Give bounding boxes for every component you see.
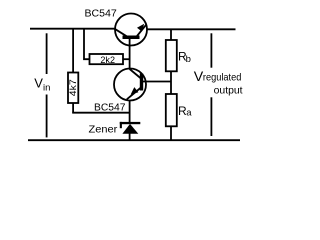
svg-text:4k7: 4k7: [68, 79, 78, 96]
wire 2k2 right lead to Q1 base node: [123, 58, 130, 60]
svg-text:output: output: [214, 85, 243, 97]
wire bottom common rail: [28, 139, 240, 141]
resistor 4k7 top lead wire: [72, 29, 74, 73]
wire Rb bottom to Ra top (divider midpoint): [170, 71, 172, 94]
svg-text:b: b: [186, 54, 191, 65]
transistor Q1 BC547 body circle: [115, 14, 147, 46]
svg-text:in: in: [43, 82, 50, 93]
transistor Q2 collector lead: [130, 69, 141, 79]
transistor Q2 base bar: [140, 74, 143, 91]
transistor Q1 emitter lead: [137, 24, 147, 36]
svg-text:BC547: BC547: [85, 8, 118, 19]
wire top input rail (Vin+ to Q1 collector): [30, 28, 115, 30]
zener diode cathode bar: [120, 122, 141, 124]
zener diode cathode bar left bend: [120, 122, 122, 128]
node Vin measurement line lower segment: [46, 95, 48, 138]
resistor 4k7 bottom lead wire: [72, 103, 74, 113]
svg-text:V: V: [34, 75, 43, 90]
wire 2k2 left lead from input rail: [84, 29, 90, 60]
resistor 2k2 body: [90, 54, 124, 64]
transistor Q2 emitter lead: [127, 88, 141, 100]
transistor Q2 emitter arrowhead: [131, 87, 139, 95]
zener diode anode triangle: [122, 124, 138, 134]
transistor Q1 base bar: [123, 36, 140, 40]
wire Q2 base to divider junction: [143, 81, 171, 83]
transistor Q1 emitter arrowhead: [137, 24, 144, 32]
node Vin measurement line upper segment: [46, 33, 48, 74]
wire output rail to Rb top: [170, 29, 172, 40]
wire Q1 base to Q2 collector (vertical): [129, 38, 131, 69]
transistor Q2 BC547 body circle: [114, 69, 146, 101]
wire 4k7 to zener/Q2 emitter junction: [72, 112, 129, 114]
svg-text:2k2: 2k2: [100, 55, 115, 65]
transistor Q1 collector lead: [115, 29, 127, 37]
resistor Ra body: [166, 94, 177, 126]
wire zener anode to bottom rail: [129, 133, 131, 140]
svg-text:Zener: Zener: [89, 124, 118, 136]
svg-text:BC547: BC547: [94, 103, 126, 114]
wire Ra bottom to bottom rail: [170, 126, 172, 140]
resistor Rb body: [166, 40, 177, 71]
node Vregulated output measurement line upper segment: [210, 33, 212, 67]
node Vregulated output measurement line lower segment: [210, 97, 212, 136]
wire top output rail (Q1 emitter to output): [147, 28, 236, 30]
resistor 4k7 body: [68, 73, 78, 104]
svg-text:regulated: regulated: [203, 72, 242, 84]
wire Q2 emitter down to zener cathode: [129, 101, 131, 123]
svg-text:a: a: [186, 107, 192, 118]
